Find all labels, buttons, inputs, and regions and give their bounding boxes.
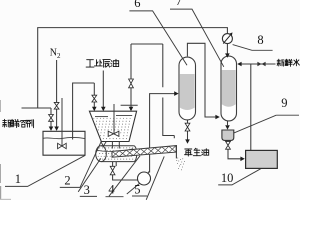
svg-text:4: 4 [108,182,115,196]
svg-text:8: 8 [257,33,263,47]
svg-text:2: 2 [64,173,70,187]
svg-text:3: 3 [84,183,90,197]
svg-text:N: N [50,48,57,59]
svg-text:10: 10 [221,171,234,185]
svg-text:2: 2 [57,52,61,60]
svg-text:9: 9 [281,96,287,110]
svg-text:5: 5 [134,182,140,196]
svg-text:6: 6 [134,0,140,10]
svg-text:1: 1 [15,172,21,186]
svg-text:7: 7 [176,0,182,8]
